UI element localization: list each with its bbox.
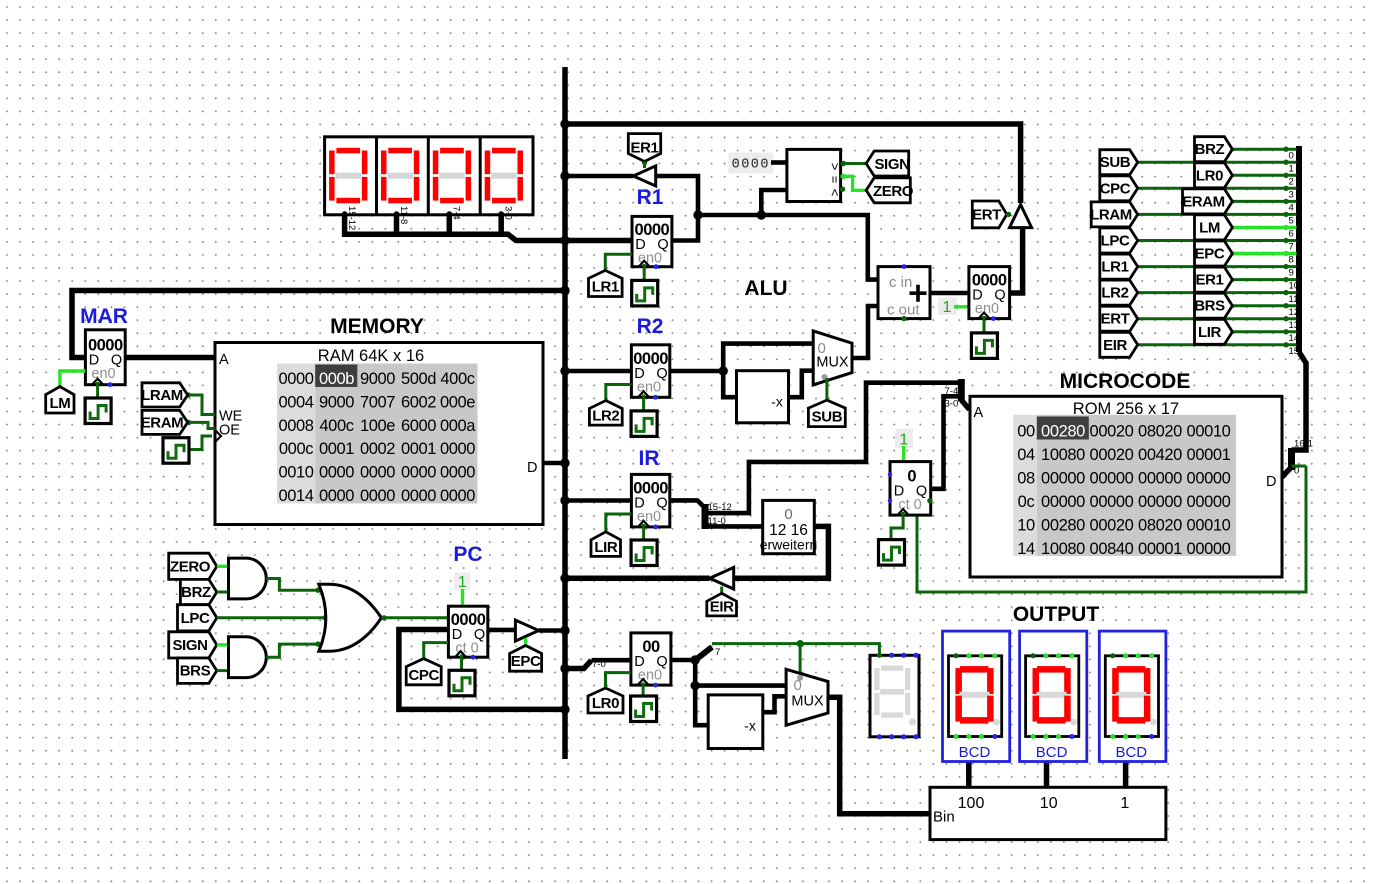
svg-text:D: D — [527, 460, 537, 476]
constant 0000 (comparator reference) — [728, 153, 773, 174]
wire: clock to PC (green) — [460, 655, 463, 671]
BCD display tens — [1020, 631, 1087, 761]
wire: control bit 11 LR2 — [1138, 291, 1297, 294]
svg-text:LR0: LR0 — [1196, 167, 1223, 184]
svg-text:0000: 0000 — [319, 464, 354, 482]
wire: clock to RAM (green) — [190, 436, 212, 450]
svg-text:BRS: BRS — [180, 663, 211, 680]
wire: comparator B input drop — [761, 190, 787, 215]
tunnel EIR (column) — [1100, 332, 1138, 357]
wire: control bit 14 LIR — [1232, 330, 1296, 333]
svg-text:EPC: EPC — [1195, 246, 1225, 263]
svg-text:00000: 00000 — [1187, 469, 1231, 487]
svg-text:9000: 9000 — [319, 393, 354, 411]
node: bus junction top — [560, 119, 569, 128]
tunnel LPC (column) — [1100, 228, 1138, 253]
svg-text:>: > — [828, 163, 843, 171]
tunnel LM (column) — [1195, 215, 1233, 240]
wire: R0 Q to output junction — [671, 658, 695, 663]
sign extender 12 to 16 — [760, 500, 818, 553]
tunnel ERT (at buffer) — [972, 201, 1007, 228]
wire: BCD 1 to Bin — [1123, 762, 1129, 788]
svg-text:00420: 00420 — [1138, 446, 1182, 464]
label: pin numbers 0-15 — [1289, 151, 1300, 357]
wire: control bit 15 EIR — [1138, 343, 1297, 346]
svg-text:0000: 0000 — [440, 440, 475, 458]
wire: bus to R2 D — [565, 369, 631, 374]
BCD display hundreds — [943, 631, 1010, 761]
svg-text:0000: 0000 — [278, 370, 313, 388]
memory table row 0008 — [278, 417, 476, 435]
svg-text:c in: c in — [889, 274, 912, 291]
wire: microstep counter Q to address splitter — [929, 396, 961, 489]
wire: EIR to buffer enable (green) — [720, 587, 723, 594]
svg-text:00280: 00280 — [1041, 422, 1085, 440]
wire: clock to R1 (green) — [643, 264, 646, 280]
svg-text:LRAM: LRAM — [1090, 206, 1132, 223]
microstep counter — [888, 462, 933, 515]
wire: ROM D to splitter — [1282, 467, 1292, 478]
wire: comparator gt to SIGN (green) — [841, 162, 867, 165]
svg-text:EIR: EIR — [710, 598, 734, 615]
tunnel ZERO (at gate) — [169, 553, 217, 579]
wire: bus to IR D — [565, 498, 631, 503]
wire: ALU MUX out to adder input b — [852, 306, 878, 358]
buffer ERT (points up) — [1010, 205, 1032, 228]
svg-text:0008: 0008 — [278, 417, 313, 435]
wire: microcode reset bit back to counter (green) — [917, 466, 1306, 592]
svg-text:CPC: CPC — [1100, 180, 1131, 197]
svg-text:LR1: LR1 — [592, 279, 619, 296]
node: junction output MUX in — [691, 681, 700, 690]
tunnel ZERO (at comparator) — [866, 178, 910, 203]
comparator — [787, 149, 843, 201]
memory table row 0004 — [278, 393, 475, 411]
tunnel SIGN (at comparator) — [866, 151, 909, 176]
svg-text:0c: 0c — [1018, 493, 1035, 511]
wire: BCD 10 to Bin — [1044, 762, 1050, 788]
wire: control bit 6 LM high — [1232, 226, 1296, 229]
tunnel LRAM (column) — [1091, 202, 1138, 227]
svg-text:0: 0 — [784, 506, 792, 523]
svg-text:MEMORY: MEMORY — [330, 315, 424, 338]
svg-text:1: 1 — [458, 574, 467, 591]
tunnel BRS (at gate) — [178, 658, 217, 683]
svg-text:Bin: Bin — [933, 809, 955, 826]
svg-text:LR0: LR0 — [592, 695, 619, 712]
tunnel CPC (column) — [1100, 176, 1138, 201]
tunnel LM (at MAR) — [46, 387, 74, 413]
wire: LM to MAR enable (bright green) — [60, 371, 86, 387]
svg-text:16-1: 16-1 — [1294, 439, 1313, 450]
wire: main data bus vertical — [562, 67, 568, 759]
memory table row 0014 — [278, 487, 475, 505]
wire: MAR Q to MEMORY A — [125, 355, 216, 361]
wire: MEMORY D to bus — [543, 461, 565, 466]
wire: control bit 12 BRS — [1232, 304, 1296, 307]
svg-text:0001: 0001 — [401, 440, 436, 458]
svg-text:14: 14 — [1289, 333, 1300, 344]
svg-text:A: A — [974, 405, 984, 421]
svg-text:ALU: ALU — [744, 277, 787, 300]
wire: display digit2 drop — [394, 214, 400, 236]
wire: output negate to MUX input 1 — [763, 696, 786, 712]
wire: OR out to PC load (green) — [381, 616, 448, 619]
node: bus junction R1 D — [560, 236, 569, 245]
svg-text:0000: 0000 — [440, 464, 475, 482]
node: bus junction ER1 — [560, 171, 569, 180]
register T (ALU output) — [969, 267, 1010, 321]
microcode table row 10 — [1017, 516, 1230, 534]
svg-text:EIR: EIR — [1103, 337, 1127, 354]
wire: PC Q to EPC buffer — [488, 628, 516, 633]
svg-text:00000: 00000 — [1187, 493, 1231, 511]
splitter: R0 bit 7 tap — [696, 647, 712, 660]
svg-text:-x: -x — [744, 718, 756, 734]
multiplexer ALU — [813, 331, 852, 385]
wire: adder sum to T register D — [930, 291, 969, 296]
svg-text:0004: 0004 — [278, 393, 313, 411]
svg-text:ER1: ER1 — [631, 140, 659, 157]
svg-text:00000: 00000 — [1090, 493, 1134, 511]
svg-text:BCD: BCD — [1115, 744, 1147, 761]
svg-text:8: 8 — [1289, 255, 1294, 266]
svg-text:LR2: LR2 — [1101, 285, 1128, 302]
node: bus junction R0 — [560, 664, 569, 673]
svg-text:R1: R1 — [637, 186, 664, 209]
node: bus junction MAR — [560, 286, 569, 295]
wire: top horizontal bus to ERT buffer — [565, 124, 1021, 203]
clock input PC — [449, 670, 475, 696]
svg-text:SUB: SUB — [812, 409, 843, 426]
wire: microcode bits 16-1 up to distribution bar — [1292, 352, 1307, 450]
svg-text:0000: 0000 — [401, 464, 436, 482]
seven segment digit 1 — [329, 148, 367, 204]
tunnel LR1 (column) — [1100, 254, 1138, 279]
svg-text:BRZ: BRZ — [181, 584, 211, 601]
wire: output MUX to Bin converter — [828, 697, 931, 814]
svg-text:PC: PC — [453, 543, 482, 566]
svg-text:0000: 0000 — [360, 464, 395, 482]
svg-text:LPC: LPC — [1101, 233, 1130, 250]
wire: clock to R2 (green) — [642, 395, 645, 411]
svg-text:12: 12 — [1289, 307, 1300, 318]
svg-text:10080: 10080 — [1041, 540, 1085, 558]
wire: IR bits 15-12 to microcode address — [705, 383, 961, 513]
node: junction R2 Q — [719, 366, 728, 375]
wire: ER1 to buffer enable (green) — [643, 162, 646, 169]
wire: clock to MAR (green) — [96, 382, 99, 398]
buffer EIR (points left) — [710, 567, 734, 589]
wire: BRS to AND2 (green) — [217, 669, 229, 672]
wire: BRZ to AND1 (green) — [217, 591, 229, 594]
svg-text:15: 15 — [1289, 346, 1300, 357]
wire: display digit4 drop — [498, 214, 504, 236]
OR gate — [319, 584, 382, 651]
wire: T register Q up to ERT buffer — [1010, 228, 1023, 293]
svg-text:00840: 00840 — [1090, 540, 1134, 558]
tunnel LIR — [591, 532, 621, 557]
wire: PC D feedback from bus — [399, 630, 565, 710]
register R1 — [632, 216, 672, 269]
splitter: control distribution bar — [1296, 146, 1302, 352]
hex display 4-digit seven segment — [325, 137, 533, 231]
svg-text:LPC: LPC — [181, 610, 210, 627]
svg-text:1: 1 — [1289, 164, 1294, 175]
svg-text:14: 14 — [1017, 540, 1035, 558]
microcode table row 04 — [1017, 446, 1230, 464]
svg-text:11-0: 11-0 — [708, 516, 726, 527]
svg-text:LR2: LR2 — [592, 408, 619, 425]
constant 1 (T register enable) — [938, 297, 957, 316]
svg-text:BCD: BCD — [959, 744, 991, 761]
svg-text:15-12: 15-12 — [708, 502, 732, 513]
wire: ER1 buffer output to bus — [565, 174, 633, 179]
svg-text:5: 5 — [1289, 216, 1294, 227]
tunnel EIR (at buffer) — [707, 593, 737, 616]
clock input counter — [879, 540, 905, 566]
node: ERT wire dot — [953, 304, 959, 310]
svg-text:0000: 0000 — [319, 487, 354, 505]
wire: constant 1 to PC en (bright green) — [461, 589, 464, 606]
svg-text:1: 1 — [943, 299, 952, 316]
svg-text:00000: 00000 — [1138, 493, 1182, 511]
svg-text:0000: 0000 — [440, 487, 475, 505]
wire: splitter 7-0 to R0 D — [592, 658, 631, 663]
node: bus junction PC feedback — [560, 705, 569, 714]
buffer EPC (points right) — [515, 620, 538, 641]
AND gate 1 — [229, 558, 267, 599]
clock input R1 — [632, 280, 658, 306]
svg-text:000c: 000c — [279, 440, 313, 458]
wire: ZERO to AND1 (bright green) — [217, 565, 229, 568]
wire: control bit 0 BRZ — [1232, 148, 1296, 151]
svg-text:00: 00 — [1017, 422, 1035, 440]
microcode table row 0c — [1018, 493, 1231, 511]
register PC (counter) — [448, 606, 487, 659]
wire: display digit3 drop — [447, 214, 453, 236]
svg-text:RAM 64K x 16: RAM 64K x 16 — [318, 347, 424, 365]
svg-text:9000: 9000 — [360, 370, 395, 388]
tunnel EPC (column) — [1195, 241, 1233, 266]
wire: LIR to IR enable (green) — [606, 514, 632, 532]
wire: control bit 2 LR0 — [1232, 174, 1296, 177]
wire: constant to comparator A — [771, 160, 787, 165]
wire: EIR buffer out to bus — [565, 575, 710, 581]
splitter: bus bits 7-0 to R0 — [565, 660, 592, 668]
svg-text:ERAM: ERAM — [1182, 193, 1225, 210]
svg-text:10: 10 — [1040, 795, 1058, 812]
svg-text:00001: 00001 — [1138, 540, 1182, 558]
register R2 — [631, 345, 669, 400]
node: LRAM tip dot — [186, 392, 191, 397]
svg-text:LM: LM — [1199, 219, 1220, 236]
svg-text:0014: 0014 — [278, 487, 313, 505]
seven segment digit 4 — [485, 148, 523, 204]
svg-text:IR: IR — [639, 447, 660, 470]
splitter: microcode D output bar — [1288, 448, 1295, 470]
svg-text:00001: 00001 — [1187, 446, 1231, 464]
svg-text:LIR: LIR — [594, 539, 618, 556]
svg-text:CPC: CPC — [408, 667, 439, 684]
svg-text:ERT: ERT — [972, 206, 1001, 223]
constant 1 (PC enable) — [454, 573, 470, 591]
svg-text:00010: 00010 — [1187, 516, 1231, 534]
svg-text:00020: 00020 — [1090, 422, 1134, 440]
svg-text:BCD: BCD — [1036, 744, 1068, 761]
wire: R0 Q down to output MUX input 0 — [695, 660, 786, 686]
svg-text:SIGN: SIGN — [874, 156, 909, 173]
tunnel LR2 — [589, 401, 622, 426]
negate box output (-x) — [708, 695, 763, 749]
svg-text:11: 11 — [1289, 294, 1299, 305]
tunnel SUB (at ALU MUX) — [808, 400, 845, 427]
wire: comparator eq to ZERO (bright green) — [841, 176, 867, 190]
svg-text:3: 3 — [1289, 190, 1294, 201]
wire: LR1 to R1 enable (green) — [605, 254, 632, 270]
wire: control bit 10 ER1 — [1232, 278, 1296, 281]
svg-text:10: 10 — [1289, 281, 1300, 292]
wire: CPC to PC count (green) — [424, 643, 449, 659]
wire: extender out to EIR buffer — [734, 526, 829, 578]
svg-text:en0: en0 — [91, 366, 115, 382]
wire: LRAM to RAM WE (green) — [188, 395, 215, 415]
wire: IR Q to splitter — [670, 500, 705, 508]
svg-text:2: 2 — [1289, 177, 1294, 188]
svg-text:ZERO: ZERO — [873, 183, 914, 200]
svg-text:7007: 7007 — [360, 393, 395, 411]
svg-text:3-0: 3-0 — [945, 399, 959, 410]
svg-text:15-12: 15-12 — [346, 206, 357, 230]
tunnel BRZ (column) — [1195, 137, 1233, 162]
node: junction R1 loop — [693, 210, 702, 219]
svg-text:MUX: MUX — [816, 355, 849, 371]
node: bus junction R2 D — [560, 366, 569, 375]
svg-text:ZERO: ZERO — [170, 558, 211, 575]
memory table row 0000 — [278, 370, 474, 388]
svg-text:MUX: MUX — [791, 694, 824, 710]
svg-text:00000: 00000 — [1090, 469, 1134, 487]
svg-text:ERAM: ERAM — [141, 415, 184, 432]
seven segment digit 2 — [381, 148, 419, 204]
svg-text:100: 100 — [958, 795, 985, 812]
wire: bus to MAR — [72, 291, 565, 358]
svg-text:6002: 6002 — [401, 393, 436, 411]
svg-text:1: 1 — [1120, 795, 1129, 812]
svg-text:6: 6 — [1289, 229, 1294, 240]
svg-text:7-4: 7-4 — [451, 206, 462, 220]
clock input T reg — [971, 333, 997, 359]
wire: horizontal net y215 from R1 loop to adder — [698, 215, 878, 280]
buffer ER1 (tri-state driver, points left) — [633, 166, 655, 186]
memory table row 0010 — [278, 464, 475, 482]
wire: control bit 9 LR1 — [1138, 265, 1297, 268]
clock input IR — [631, 540, 657, 566]
svg-text:A: A — [219, 352, 229, 368]
tunnel LPC (at gate) — [178, 605, 217, 631]
svg-text:10080: 10080 — [1041, 446, 1085, 464]
microcode table row 08 — [1017, 469, 1230, 487]
clock input R0 — [631, 696, 657, 722]
wire: clock to R0 (green) — [642, 683, 645, 697]
svg-text:000b: 000b — [319, 370, 354, 388]
svg-text:R2: R2 — [637, 315, 664, 338]
svg-text:ER1: ER1 — [1196, 272, 1224, 289]
svg-text:500d: 500d — [401, 370, 436, 388]
memory table row 000c — [279, 440, 475, 458]
wire: clock to counter (green) — [891, 512, 903, 540]
svg-text:BRZ: BRZ — [1195, 141, 1225, 158]
Bin to BCD converter box — [930, 787, 1166, 839]
svg-text:4: 4 — [1289, 203, 1294, 214]
wire: LPC to OR (green) — [217, 616, 328, 619]
svg-text:3-0: 3-0 — [503, 206, 514, 220]
minus sign display (gray 7seg) — [870, 653, 919, 740]
svg-text:7: 7 — [715, 647, 720, 658]
svg-text:LM: LM — [49, 395, 70, 412]
wire: sign bit down to output MUX select — [799, 644, 802, 676]
register R0 — [631, 633, 671, 688]
wire: LR0 to R0 enable (green) — [606, 673, 631, 688]
ROM 256 x 17 block — [970, 396, 1282, 577]
wire: address splitter to ROM A — [961, 400, 969, 410]
tunnel SIGN (at gate) — [169, 632, 217, 658]
svg-text:7: 7 — [1289, 242, 1294, 253]
wire: control bit 4 ERAM — [1232, 200, 1296, 203]
tunnel EPC (at buffer) — [510, 646, 542, 672]
wire: AND1 out to OR (green) — [266, 579, 320, 591]
microcode table row 00 — [1017, 422, 1230, 440]
clock input R2 — [631, 411, 657, 437]
splitter: IR bits bar — [702, 504, 709, 529]
tunnel ERAM (column) — [1183, 189, 1233, 214]
tunnel ERT (column) — [1100, 306, 1138, 331]
node: bus junction EIR — [560, 574, 569, 583]
adder — [878, 264, 930, 321]
wire: constant 1 to counter en (bright green) — [902, 446, 905, 462]
svg-text:04: 04 — [1017, 446, 1035, 464]
svg-text:400c: 400c — [319, 417, 353, 435]
wire: constant 1 to T reg en (bright green) — [954, 305, 969, 308]
seven segment digit 3 — [433, 148, 471, 204]
tunnel LR0 (column) — [1195, 163, 1233, 188]
wire: EPC buffer out to bus — [539, 628, 565, 633]
svg-text:=: = — [828, 176, 843, 184]
svg-text:6000: 6000 — [401, 417, 436, 435]
svg-text:00020: 00020 — [1090, 446, 1134, 464]
tunnel ERAM (at RAM) — [142, 410, 188, 434]
wire: control bit 1 SUB — [1138, 161, 1297, 164]
svg-text:D: D — [1266, 474, 1276, 490]
svg-text:00000: 00000 — [1041, 493, 1085, 511]
svg-text:BRS: BRS — [1194, 298, 1225, 315]
wire: control bit 5 LRAM — [1138, 213, 1297, 216]
node: bus junction EPC — [560, 626, 569, 635]
svg-text:0: 0 — [1289, 151, 1294, 162]
svg-text:000a: 000a — [440, 417, 476, 435]
svg-text:7-4: 7-4 — [945, 386, 959, 397]
microcode table row 14 — [1017, 540, 1230, 558]
tunnel BRZ (at gate) — [180, 579, 216, 604]
tunnel LR1 — [589, 270, 623, 296]
splitter: microcode address combiner bar — [958, 379, 965, 401]
tunnel CPC (at PC) — [406, 659, 441, 685]
wire: display bus to R1 D — [345, 214, 632, 241]
wire: sign bit to minus display (green) — [712, 644, 879, 656]
wire: EPC to buffer enable (bright green) — [524, 638, 527, 646]
wire: R2 Q to junction — [670, 369, 723, 374]
svg-text:0000: 0000 — [360, 487, 395, 505]
